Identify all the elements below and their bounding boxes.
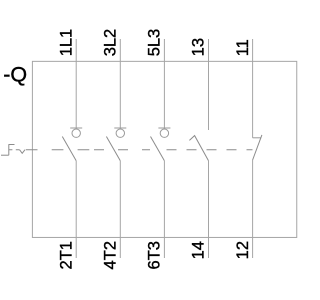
svg-text:13: 13 xyxy=(190,38,208,56)
svg-text:2T1: 2T1 xyxy=(57,241,75,269)
svg-text:1L1: 1L1 xyxy=(57,29,75,57)
svg-text:-Q: -Q xyxy=(3,63,27,87)
svg-text:11: 11 xyxy=(234,39,252,56)
svg-text:5L3: 5L3 xyxy=(146,29,164,57)
svg-text:4T2: 4T2 xyxy=(102,241,120,269)
svg-text:14: 14 xyxy=(190,241,208,259)
svg-text:3L2: 3L2 xyxy=(102,29,120,57)
svg-text:12: 12 xyxy=(234,241,252,259)
svg-text:6T3: 6T3 xyxy=(146,241,164,269)
